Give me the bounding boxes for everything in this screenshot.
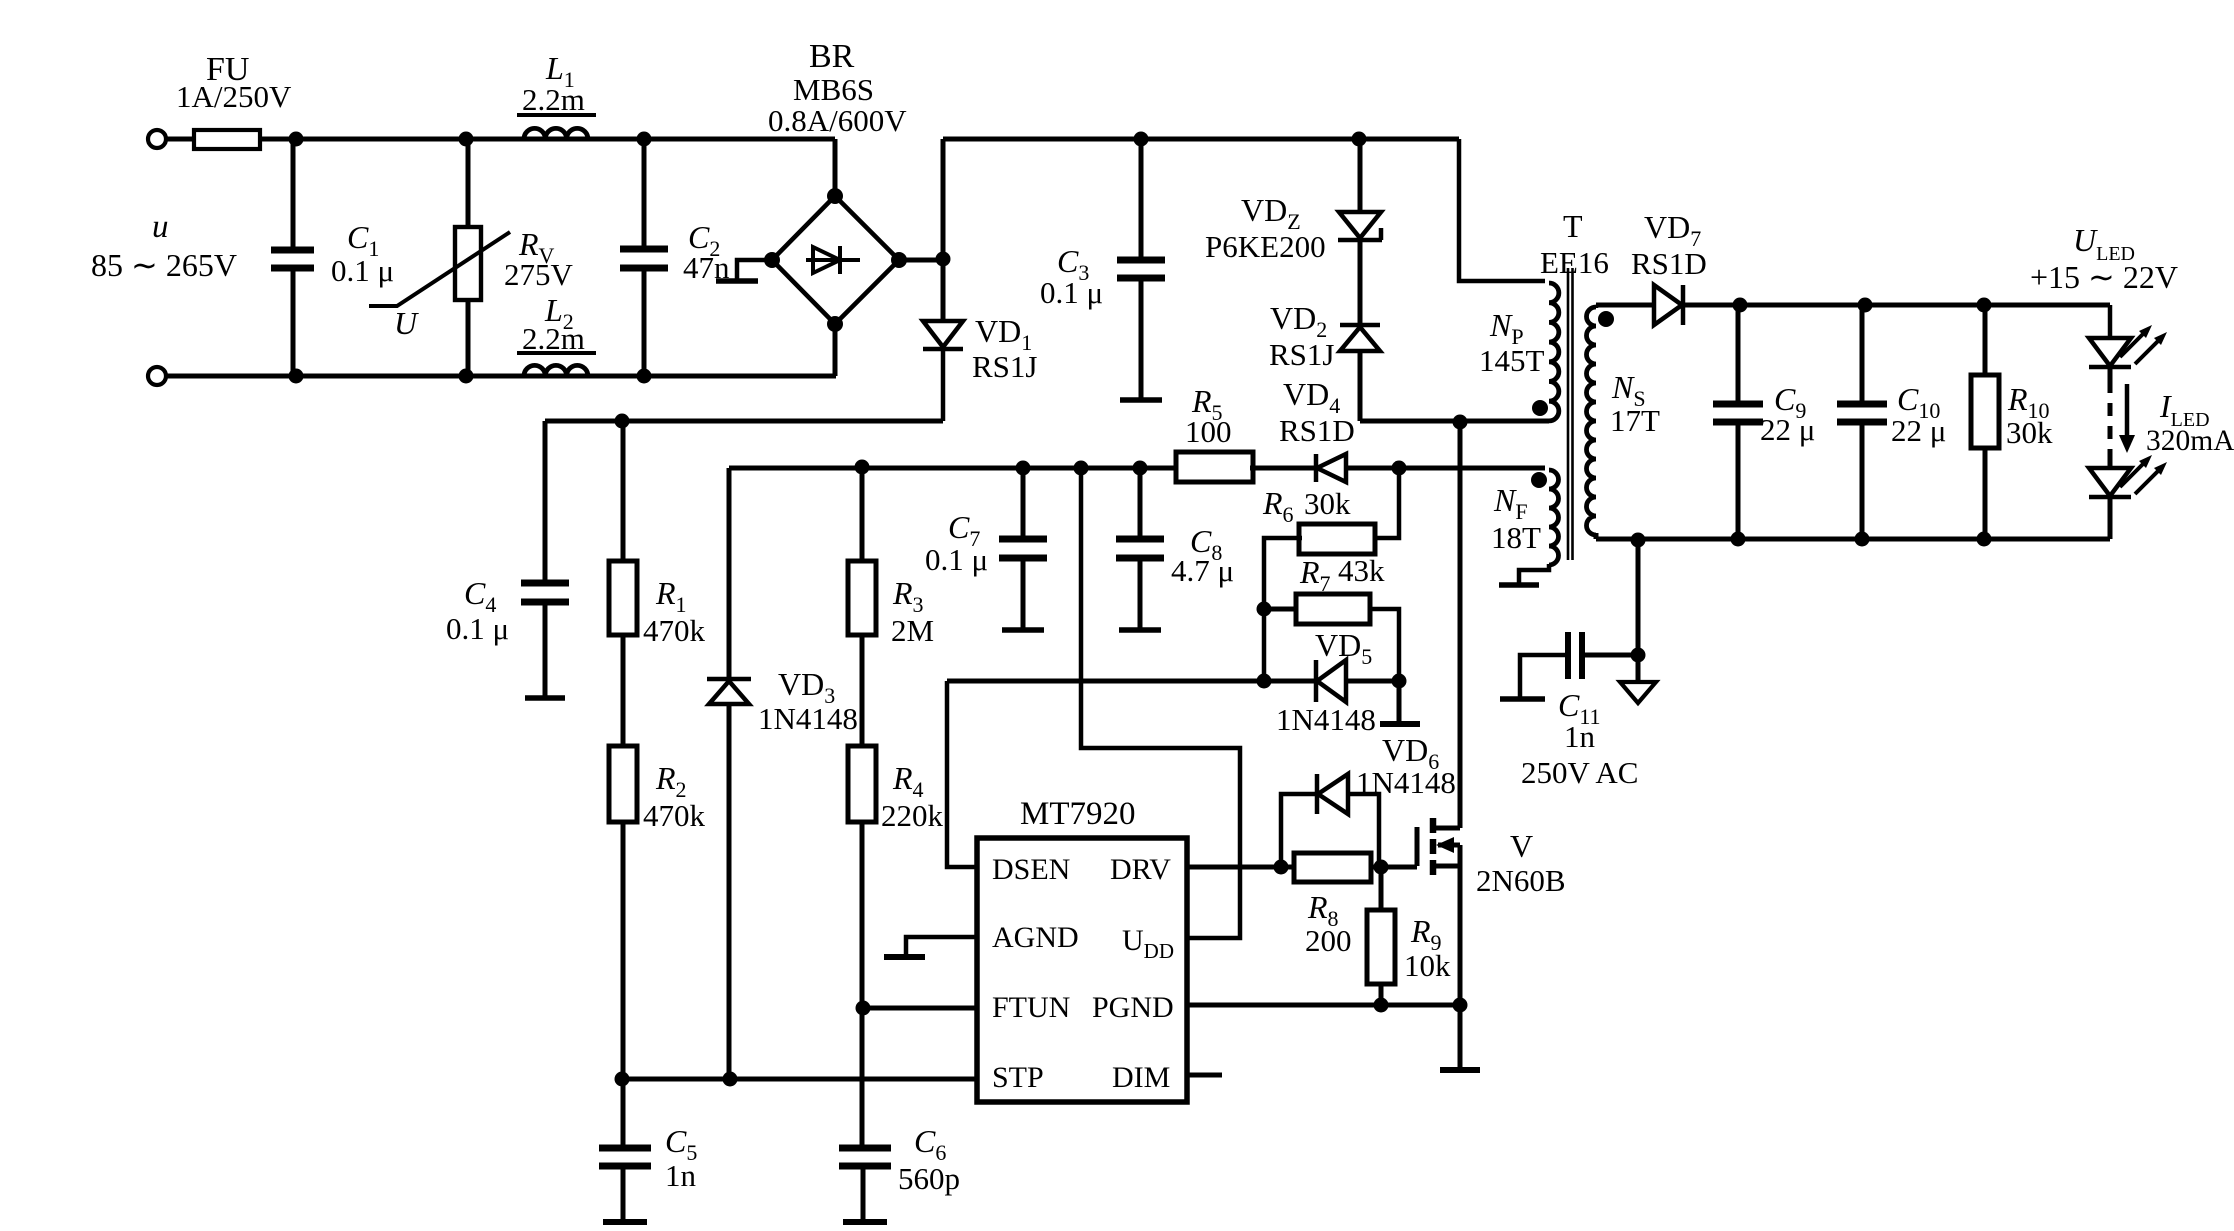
label C11 value <box>1564 719 1596 754</box>
resistor R5 <box>1176 452 1253 482</box>
svg-text:DSEN: DSEN <box>992 853 1070 886</box>
label C11 rating <box>1521 755 1638 790</box>
svg-text:DRV: DRV <box>1110 853 1171 886</box>
capacitor C3 <box>1117 139 1165 400</box>
label V type <box>1476 863 1566 898</box>
resistor R1 <box>609 421 637 746</box>
diode VD1 <box>923 321 963 421</box>
wire DIM stub <box>1187 1073 1222 1078</box>
diode VD3 <box>707 468 751 1079</box>
label NF turns <box>1491 520 1541 555</box>
label C2 value <box>683 250 730 285</box>
transformer secondary NS <box>1587 305 1597 535</box>
wire rectified riser <box>941 139 946 321</box>
node RV top <box>459 132 474 147</box>
pin FTUN <box>992 991 1070 1024</box>
node RV bottom <box>459 369 474 384</box>
transistor V 2N60B <box>1417 818 1460 1005</box>
resistor R6 <box>1299 524 1375 554</box>
label VD7 type <box>1631 246 1707 281</box>
label R4 value <box>881 798 944 833</box>
node bridge left <box>764 252 780 268</box>
ground AGND <box>884 937 977 957</box>
svg-text:u: u <box>152 209 169 245</box>
label C3 <box>1057 243 1089 285</box>
node drain top <box>1453 415 1468 430</box>
label C7 value <box>925 542 988 577</box>
resistor R3 <box>848 467 876 746</box>
zener diode VDZ <box>1338 139 1382 240</box>
label C10 <box>1897 381 1940 423</box>
LED D1 <box>2089 325 2167 367</box>
node VD3 bottom <box>723 1072 738 1087</box>
wire startup line <box>545 419 943 424</box>
node C2 bottom <box>637 369 652 384</box>
label VD6 <box>1382 732 1439 774</box>
label VD2 <box>1270 300 1327 342</box>
input terminal (line) <box>148 130 166 148</box>
svg-text:1n: 1n <box>1564 719 1596 754</box>
label C9 value <box>1760 412 1815 447</box>
label NF <box>1493 482 1528 524</box>
inductor L2 <box>517 353 596 376</box>
svg-text:MB6S: MB6S <box>793 72 874 107</box>
label R8 value <box>1305 923 1352 958</box>
label L1 value <box>522 82 585 117</box>
wire output rail <box>1683 303 2110 308</box>
wire UDD supply <box>1081 468 1240 938</box>
label RV <box>518 226 555 268</box>
node NP polarity dot <box>1532 400 1548 416</box>
resistor R9 <box>1367 867 1395 1005</box>
label R5 value <box>1185 414 1232 449</box>
svg-text:100: 100 <box>1185 414 1232 449</box>
label C8 <box>1190 523 1222 565</box>
svg-text:17T: 17T <box>1610 403 1660 438</box>
wire R5 to VD4 <box>1250 466 1316 471</box>
node FTUN junction <box>856 1001 871 1016</box>
svg-text:0.1 μ: 0.1 μ <box>331 253 394 288</box>
capacitor C1 <box>271 139 314 376</box>
svg-text:2M: 2M <box>891 613 934 648</box>
svg-text:DIM: DIM <box>1112 1061 1170 1094</box>
svg-text:250V AC: 250V AC <box>1521 755 1638 790</box>
node C9 bottom <box>1731 532 1746 547</box>
svg-text:4.7 μ: 4.7 μ <box>1171 553 1234 588</box>
ground power <box>1440 1005 1480 1070</box>
node C11 junction <box>1631 648 1646 663</box>
node NS polarity dot <box>1598 311 1614 327</box>
wire VD4 node drop <box>1374 468 1399 538</box>
wire PGND <box>1187 1003 1460 1008</box>
wire C11 drop <box>1636 539 1641 682</box>
svg-text:2.2m: 2.2m <box>522 82 585 117</box>
pin UDD <box>1122 924 1174 963</box>
svg-text:200: 200 <box>1305 923 1352 958</box>
label VD3 <box>778 666 835 708</box>
label R2 value <box>643 798 706 833</box>
op-amp U1 MT7920 box <box>977 838 1187 1102</box>
label R6 <box>1262 485 1294 527</box>
svg-text:RS1D: RS1D <box>1631 246 1707 281</box>
wire rectified rail <box>943 137 1459 142</box>
node VD5 anode line <box>1257 674 1272 689</box>
label L2 <box>544 292 574 334</box>
label L1 <box>545 50 575 92</box>
label VD1 <box>975 313 1032 355</box>
svg-text:0.1 μ: 0.1 μ <box>925 542 988 577</box>
svg-text:30k: 30k <box>1304 486 1351 521</box>
svg-text:30k: 30k <box>2006 415 2053 450</box>
label R3 value <box>891 613 934 648</box>
node VD5 right <box>1392 674 1407 689</box>
svg-text:MT7920: MT7920 <box>1020 796 1136 832</box>
pin DSEN <box>992 853 1070 886</box>
label C7 <box>948 509 980 551</box>
label R2 <box>655 760 687 802</box>
node bridge out <box>936 252 951 267</box>
label VD7 <box>1644 209 1701 251</box>
node C1 top <box>289 132 304 147</box>
label FU <box>206 51 249 88</box>
wire STP <box>622 1077 977 1082</box>
svg-text:10k: 10k <box>1404 948 1451 983</box>
svg-text:STP: STP <box>992 1061 1044 1094</box>
label R7 value <box>1338 553 1385 588</box>
label NP <box>1489 307 1524 349</box>
svg-text:470k: 470k <box>643 798 706 833</box>
wire top rail <box>166 137 835 142</box>
svg-text:1N4148: 1N4148 <box>758 701 858 736</box>
node VDZ top <box>1352 132 1367 147</box>
svg-text:18T: 18T <box>1491 520 1541 555</box>
transformer core <box>1568 268 1573 560</box>
wire bottom rail <box>166 374 836 379</box>
node bridge right <box>891 252 907 268</box>
label FU value <box>176 79 292 114</box>
pin AGND <box>992 921 1079 954</box>
capacitor C4 <box>521 421 569 698</box>
capacitor C5 <box>599 1079 651 1222</box>
resistor R2 <box>609 746 637 1079</box>
svg-text:RS1J: RS1J <box>1269 337 1334 372</box>
diode VD2 <box>1340 240 1380 421</box>
label VD1 type <box>972 349 1037 384</box>
capacitor C6 <box>839 1148 891 1222</box>
label T <box>1563 208 1583 244</box>
pin DIM <box>1112 1061 1170 1094</box>
svg-text:470k: 470k <box>643 613 706 648</box>
svg-text:275V: 275V <box>504 257 574 292</box>
label VD6 type <box>1356 765 1456 800</box>
label VDZ type <box>1205 229 1326 264</box>
node R8 left <box>1274 860 1289 875</box>
diode VD4 <box>1316 454 1346 482</box>
wire R6 left leg <box>1264 538 1302 681</box>
node R7 left <box>1257 602 1272 617</box>
label C9 <box>1774 381 1806 423</box>
node C7 top <box>1016 461 1031 476</box>
label R10 value <box>2006 415 2053 450</box>
label C8 value <box>1171 553 1234 588</box>
wire VD4 to NF <box>1346 466 1545 471</box>
transformer feedback NF <box>1549 470 1559 565</box>
svg-text:FTUN: FTUN <box>992 991 1070 1024</box>
svg-text:BR: BR <box>809 38 855 75</box>
wire secondary return <box>1596 533 2110 539</box>
svg-text:AGND: AGND <box>992 921 1079 954</box>
svg-text:220k: 220k <box>881 798 944 833</box>
wire NP top feed <box>1459 139 1545 281</box>
wire LED bottom <box>2108 497 2113 539</box>
label NS turns <box>1610 403 1660 438</box>
node C2 top <box>637 132 652 147</box>
capacitor C2 <box>620 139 668 376</box>
label RV value <box>504 257 574 292</box>
label NS <box>1611 369 1646 411</box>
node C10 top <box>1858 298 1873 313</box>
varistor RV <box>369 139 510 376</box>
label U LED <box>2073 222 2135 265</box>
svg-text:PGND: PGND <box>1092 991 1174 1024</box>
wire DSEN sense line <box>947 679 1316 684</box>
label R5 <box>1191 383 1223 425</box>
pin PGND <box>1092 991 1174 1024</box>
node STP left <box>615 1072 630 1087</box>
label R9 <box>1410 913 1442 955</box>
svg-text:2.2m: 2.2m <box>522 321 585 356</box>
wire FTUN <box>863 1006 977 1011</box>
diode VD7 <box>1654 285 1683 325</box>
svg-text:145T: 145T <box>1479 343 1545 378</box>
svg-text:22 μ: 22 μ <box>1760 412 1815 447</box>
svg-text:+15 ∼ 22V: +15 ∼ 22V <box>2030 259 2178 295</box>
label LED current <box>2146 425 2234 457</box>
svg-text:0.8A/600V: 0.8A/600V <box>768 103 907 138</box>
capacitor C11 <box>1500 632 1638 699</box>
diode VD6 <box>1281 774 1379 867</box>
label MT7920 <box>1020 796 1136 832</box>
label VD5 <box>1315 627 1372 669</box>
svg-text:22 μ: 22 μ <box>1891 413 1946 448</box>
label U <box>394 305 419 341</box>
label VD4 <box>1283 376 1340 418</box>
label BR rating <box>768 103 907 138</box>
svg-text:P6KE200: P6KE200 <box>1205 229 1326 264</box>
node R1 top <box>615 414 630 429</box>
label C6 value <box>898 1161 960 1196</box>
wire gate <box>1371 865 1417 870</box>
label R3 <box>892 575 924 617</box>
label VD4 type <box>1279 413 1355 448</box>
wire LED dashed <box>2108 367 2113 468</box>
label u <box>152 209 169 245</box>
label C2 <box>688 219 720 261</box>
label L2 value <box>522 321 585 356</box>
bridge rectifier BR <box>772 139 899 376</box>
inductor L1 <box>517 115 596 139</box>
capacitor C7 <box>999 468 1047 630</box>
label C1 value <box>331 253 394 288</box>
label VD3 type <box>758 701 858 736</box>
resistor R4 <box>848 746 876 1148</box>
node NF polarity dot <box>1531 472 1547 488</box>
resistor R10 <box>1971 305 1999 539</box>
svg-text:2N60B: 2N60B <box>1476 863 1566 898</box>
label C5 <box>665 1123 697 1165</box>
svg-text:1n: 1n <box>665 1158 697 1193</box>
node R9 bottom <box>1374 998 1389 1013</box>
svg-text:0.1 μ: 0.1 μ <box>1040 275 1103 310</box>
node VD4 out <box>1392 461 1407 476</box>
ground chassis <box>1620 682 1656 703</box>
label VD2 type <box>1269 337 1334 372</box>
label VDZ <box>1241 192 1301 234</box>
label C4 <box>464 575 496 617</box>
resistor R8 <box>1294 853 1371 882</box>
label output voltage <box>2030 259 2178 295</box>
wire NS top <box>1596 303 1654 308</box>
transformer primary NP <box>1549 283 1559 421</box>
label VD5 type <box>1276 702 1376 737</box>
svg-text:T: T <box>1563 208 1583 244</box>
wire DRV <box>1187 865 1294 870</box>
node UDD riser top <box>1074 461 1089 476</box>
wire LED top <box>2108 305 2113 338</box>
diode VD5 <box>1316 660 1399 702</box>
svg-text:85 ∼ 265V: 85 ∼ 265V <box>91 247 237 283</box>
capacitor C10 <box>1837 305 1887 539</box>
label R1 value <box>643 613 706 648</box>
node bridge bottom <box>827 316 843 332</box>
label T core <box>1540 245 1609 280</box>
LED D2 <box>2089 455 2167 497</box>
node C1 bottom <box>289 369 304 384</box>
label NP turns <box>1479 343 1545 378</box>
label BR type <box>793 72 874 107</box>
label I LED arrow <box>2119 384 2135 453</box>
svg-text:EE16: EE16 <box>1540 245 1609 280</box>
fuse FU <box>194 130 260 149</box>
wire NP bottom <box>1360 419 1549 424</box>
node C10 bottom <box>1855 532 1870 547</box>
capacitor C9 <box>1713 305 1763 539</box>
node R8 right <box>1374 860 1389 875</box>
svg-text:RS1D: RS1D <box>1279 413 1355 448</box>
wire DSEN <box>947 681 977 867</box>
pin DRV <box>1110 853 1171 886</box>
node C3 top <box>1134 132 1149 147</box>
svg-text:1N4148: 1N4148 <box>1276 702 1376 737</box>
input terminal (neutral) <box>148 367 166 385</box>
label R8 <box>1307 889 1339 931</box>
wire NF bottom + ground <box>1499 564 1549 585</box>
svg-text:560p: 560p <box>898 1161 960 1196</box>
label C3 value <box>1040 275 1103 310</box>
svg-text:0.1 μ: 0.1 μ <box>446 611 509 646</box>
label C4 value <box>446 611 509 646</box>
svg-text:U: U <box>394 305 419 341</box>
label C10 value <box>1891 413 1946 448</box>
node C9 top <box>1733 298 1748 313</box>
label C5 value <box>665 1158 697 1193</box>
pin STP <box>992 1061 1044 1094</box>
node R10 top <box>1977 298 1992 313</box>
label R1 <box>655 575 687 617</box>
node R10 bottom <box>1977 532 1992 547</box>
node bridge top <box>827 188 843 204</box>
label C11 <box>1558 687 1601 729</box>
label R6 value <box>1304 486 1351 521</box>
svg-text:RS1J: RS1J <box>972 349 1037 384</box>
wire bridge output <box>899 258 943 263</box>
svg-text:320mA: 320mA <box>2146 425 2234 457</box>
label R4 <box>892 760 924 802</box>
node source <box>1453 998 1468 1013</box>
svg-text:1A/250V: 1A/250V <box>176 79 292 114</box>
wire supply line <box>729 466 1177 471</box>
label C1 <box>347 219 379 261</box>
label R7 <box>1299 554 1331 596</box>
svg-text:V: V <box>1510 828 1533 864</box>
label I LED <box>2159 388 2210 431</box>
label R10 <box>2007 381 2050 423</box>
resistor R7 <box>1264 594 1399 681</box>
label C6 <box>914 1123 946 1165</box>
label input voltage <box>91 247 237 283</box>
wire drain <box>1458 421 1463 828</box>
label V <box>1510 828 1533 864</box>
node C8 top <box>1133 461 1148 476</box>
ground VD5 node <box>1380 681 1420 724</box>
node C11 branch <box>1631 533 1646 548</box>
wire bridge AC stub <box>716 260 772 281</box>
svg-text:43k: 43k <box>1338 553 1385 588</box>
label R9 value <box>1404 948 1451 983</box>
node R3 top <box>855 460 870 475</box>
label BR <box>809 38 855 75</box>
capacitor C8 <box>1116 468 1164 630</box>
